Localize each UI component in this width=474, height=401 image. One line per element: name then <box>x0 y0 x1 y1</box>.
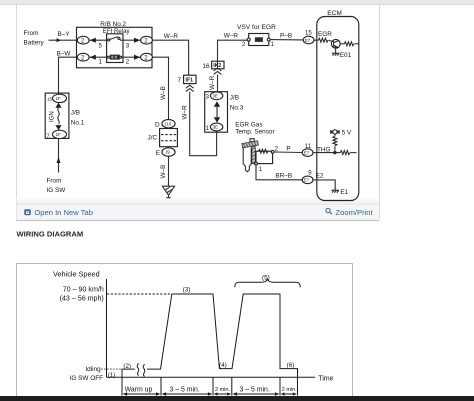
svg-text:15: 15 <box>47 97 53 102</box>
wire B-Y from battery to R/B No.2 <box>49 39 78 41</box>
svg-text:IGN: IGN <box>50 111 56 122</box>
VSV solenoid valve <box>249 34 269 46</box>
zoom/print icon <box>326 208 332 214</box>
arrow up inside J/B No.1 <box>55 103 61 108</box>
svg-text:EGR Gas: EGR Gas <box>235 121 262 128</box>
svg-text:Warm up: Warm up <box>125 386 153 393</box>
top gray bar <box>0 0 474 5</box>
chevron below IF1 <box>186 85 194 91</box>
wire W-B from J9 to ground <box>168 156 170 186</box>
relay contact <box>89 39 108 41</box>
arrowhead right-bottom <box>134 55 140 60</box>
svg-text:W–B: W–B <box>160 86 167 100</box>
svg-text:R/B No.2: R/B No.2 <box>100 21 126 28</box>
brace over second trapezoid <box>235 279 300 287</box>
svg-text:Zoom/Print: Zoom/Print <box>336 208 374 217</box>
wire W-B from relay coil to J/C <box>152 57 168 120</box>
wire BR-B from sensor pin1 to ECM pin 9 <box>256 165 302 180</box>
ECM box <box>317 17 359 201</box>
panel right border <box>379 5 381 221</box>
svg-text:(4): (4) <box>219 362 227 369</box>
connector oval 2 bottom-left <box>77 53 89 61</box>
svg-text:EGR: EGR <box>318 31 332 38</box>
svg-text:W–R: W–R <box>209 75 216 90</box>
svg-text:E1: E1 <box>340 189 348 196</box>
svg-text:Time: Time <box>318 375 333 382</box>
svg-text:W–R: W–R <box>164 33 179 40</box>
time axis baseline <box>107 376 316 378</box>
svg-text:BR–B: BR–B <box>275 172 292 179</box>
wire P from sensor to ECM pin 11 <box>274 151 302 154</box>
svg-text:WIRING DIAGRAM: WIRING DIAGRAM <box>17 230 84 239</box>
bottom black bar <box>0 396 474 401</box>
svg-text:No.3: No.3 <box>230 105 244 112</box>
svg-text:E: E <box>156 150 160 157</box>
svg-text:W–R: W–R <box>224 32 239 39</box>
panel left border <box>16 5 18 221</box>
svg-text:J/B: J/B <box>71 110 80 117</box>
arrow down inside J/B No.1 <box>55 125 61 130</box>
connector oval 2 top-right <box>141 36 153 44</box>
svg-text:5 V: 5 V <box>342 129 352 136</box>
svg-text:E7: E7 <box>304 178 310 183</box>
arrowhead left-top <box>90 38 96 43</box>
svg-text:3: 3 <box>126 42 130 49</box>
transistor inside ECM <box>331 39 340 48</box>
svg-text:2 min.: 2 min. <box>215 387 230 393</box>
svg-text:From: From <box>24 30 39 37</box>
EGR gas temperature sensor <box>242 139 259 172</box>
svg-text:From: From <box>47 178 62 185</box>
svg-text:1F: 1F <box>56 96 61 101</box>
relay coil <box>89 56 107 58</box>
connector oval 2 top-left <box>77 36 89 44</box>
svg-text:B–W: B–W <box>57 51 72 58</box>
svg-text:1: 1 <box>259 166 263 173</box>
wire W-R from IF1 down to J/B No.3 pin 1 <box>190 92 217 156</box>
relay block R/B No.2 <box>77 27 153 68</box>
svg-text:2 min.: 2 min. <box>282 387 297 393</box>
svg-text:J/C: J/C <box>148 135 158 142</box>
arrow up inside J/B No.3 <box>214 101 220 106</box>
svg-text:ECM: ECM <box>327 10 342 17</box>
ground E1 <box>331 190 339 192</box>
svg-text:7: 7 <box>178 77 182 84</box>
wire B-W vertical from J/B No.1 up and right to relay coil <box>59 57 78 94</box>
svg-text:16: 16 <box>203 63 211 70</box>
svg-text:D: D <box>155 121 160 128</box>
svg-text:(5): (5) <box>262 275 270 282</box>
svg-text:Vehicle Speed: Vehicle Speed <box>53 270 100 279</box>
svg-text:IK2: IK2 <box>213 63 221 69</box>
axis break squiggle <box>137 364 145 377</box>
svg-text:3E: 3E <box>213 125 218 130</box>
svg-text:J/B: J/B <box>230 95 239 102</box>
arrowhead right-top <box>134 38 140 43</box>
sensor resistor element box <box>256 151 273 163</box>
toolbar <box>17 205 379 221</box>
svg-text:W–R: W–R <box>182 105 189 120</box>
svg-text:3 – 5 min.: 3 – 5 min. <box>170 386 200 393</box>
svg-text:(1): (1) <box>108 372 116 379</box>
segment tick marks below axis <box>122 377 298 395</box>
svg-text:P: P <box>286 145 290 152</box>
svg-text:3E: 3E <box>213 94 218 99</box>
svg-text:(2): (2) <box>123 363 131 370</box>
svg-text:E01: E01 <box>340 52 352 59</box>
dotted idling level line <box>101 368 122 370</box>
svg-text:1F: 1F <box>56 132 61 137</box>
dashed cruise speed line <box>107 293 172 295</box>
svg-text:No.1: No.1 <box>71 120 85 127</box>
ground E01 <box>332 48 340 55</box>
arrow down inside J/B No.3 <box>214 117 220 122</box>
THG input resistor <box>317 151 357 155</box>
wire W-R from relay pin3 down to IF1 <box>152 40 188 75</box>
svg-text:VSV for EGR: VSV for EGR <box>237 24 276 31</box>
ground symbol body ground <box>162 186 174 198</box>
svg-text:(43 – 56 mph): (43 – 56 mph) <box>60 294 104 302</box>
svg-text:IG SW: IG SW <box>47 187 67 194</box>
wire P-B from VSV to ECM pin 15 <box>270 39 303 41</box>
svg-text:IG SW OFF: IG SW OFF <box>70 375 103 382</box>
svg-text:Open In New Tab: Open In New Tab <box>34 208 93 217</box>
junction block J/B No.3 <box>205 92 228 133</box>
svg-text:P–B: P–B <box>280 33 292 40</box>
5V supply symbol <box>331 130 340 134</box>
svg-text:Temp. Sensor: Temp. Sensor <box>235 129 275 136</box>
svg-text:E2: E2 <box>316 172 324 179</box>
svg-text:J10: J10 <box>164 121 172 126</box>
svg-text:IF1: IF1 <box>186 78 194 84</box>
connector oval 2 bottom-right <box>141 53 153 61</box>
collector resistor to rail <box>340 42 359 46</box>
wire W-R from J/B No.3 pin3 up to IK2 and right to VSV <box>217 75 219 92</box>
svg-text:7: 7 <box>47 133 50 139</box>
chevron below IK2 <box>214 68 222 74</box>
svg-text:Battery: Battery <box>24 40 45 47</box>
svg-text:(3): (3) <box>183 286 191 293</box>
svg-text:J9: J9 <box>165 150 170 155</box>
svg-text:W–B: W–B <box>160 165 167 179</box>
E2 wire to ground E1 <box>317 180 335 190</box>
arrowhead left-bottom <box>90 55 96 60</box>
junction block J/B No.1 <box>45 93 69 138</box>
svg-text:2: 2 <box>126 59 130 66</box>
svg-text:B–Y: B–Y <box>58 31 71 38</box>
wire from IG SW <box>58 139 60 173</box>
chart frame <box>17 264 353 401</box>
svg-text:(6): (6) <box>287 362 295 369</box>
pull-up resistor <box>333 134 337 152</box>
svg-text:Idling: Idling <box>85 366 101 373</box>
svg-text:3 – 5 min.: 3 – 5 min. <box>240 386 270 393</box>
svg-text:70 – 90 km/h: 70 – 90 km/h <box>63 285 104 293</box>
chart y-axis <box>106 279 108 377</box>
speed trace: step up to idle, break, first trapezoid <box>122 294 298 377</box>
double arrows in measure band <box>123 392 297 396</box>
open in new tab icon <box>24 209 31 215</box>
svg-text:E7: E7 <box>305 38 311 43</box>
EGR driver circuit inside ECM <box>317 38 333 42</box>
svg-text:E7: E7 <box>304 150 310 155</box>
